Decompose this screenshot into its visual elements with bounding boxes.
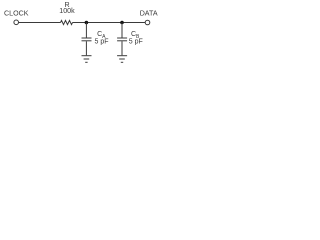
- svg-text:CLOCK: CLOCK: [4, 9, 29, 17]
- svg-text:DATA: DATA: [140, 9, 158, 17]
- svg-text:5 pF: 5 pF: [95, 39, 109, 46]
- svg-text:5 pF: 5 pF: [129, 39, 143, 46]
- svg-text:100k: 100k: [59, 7, 75, 15]
